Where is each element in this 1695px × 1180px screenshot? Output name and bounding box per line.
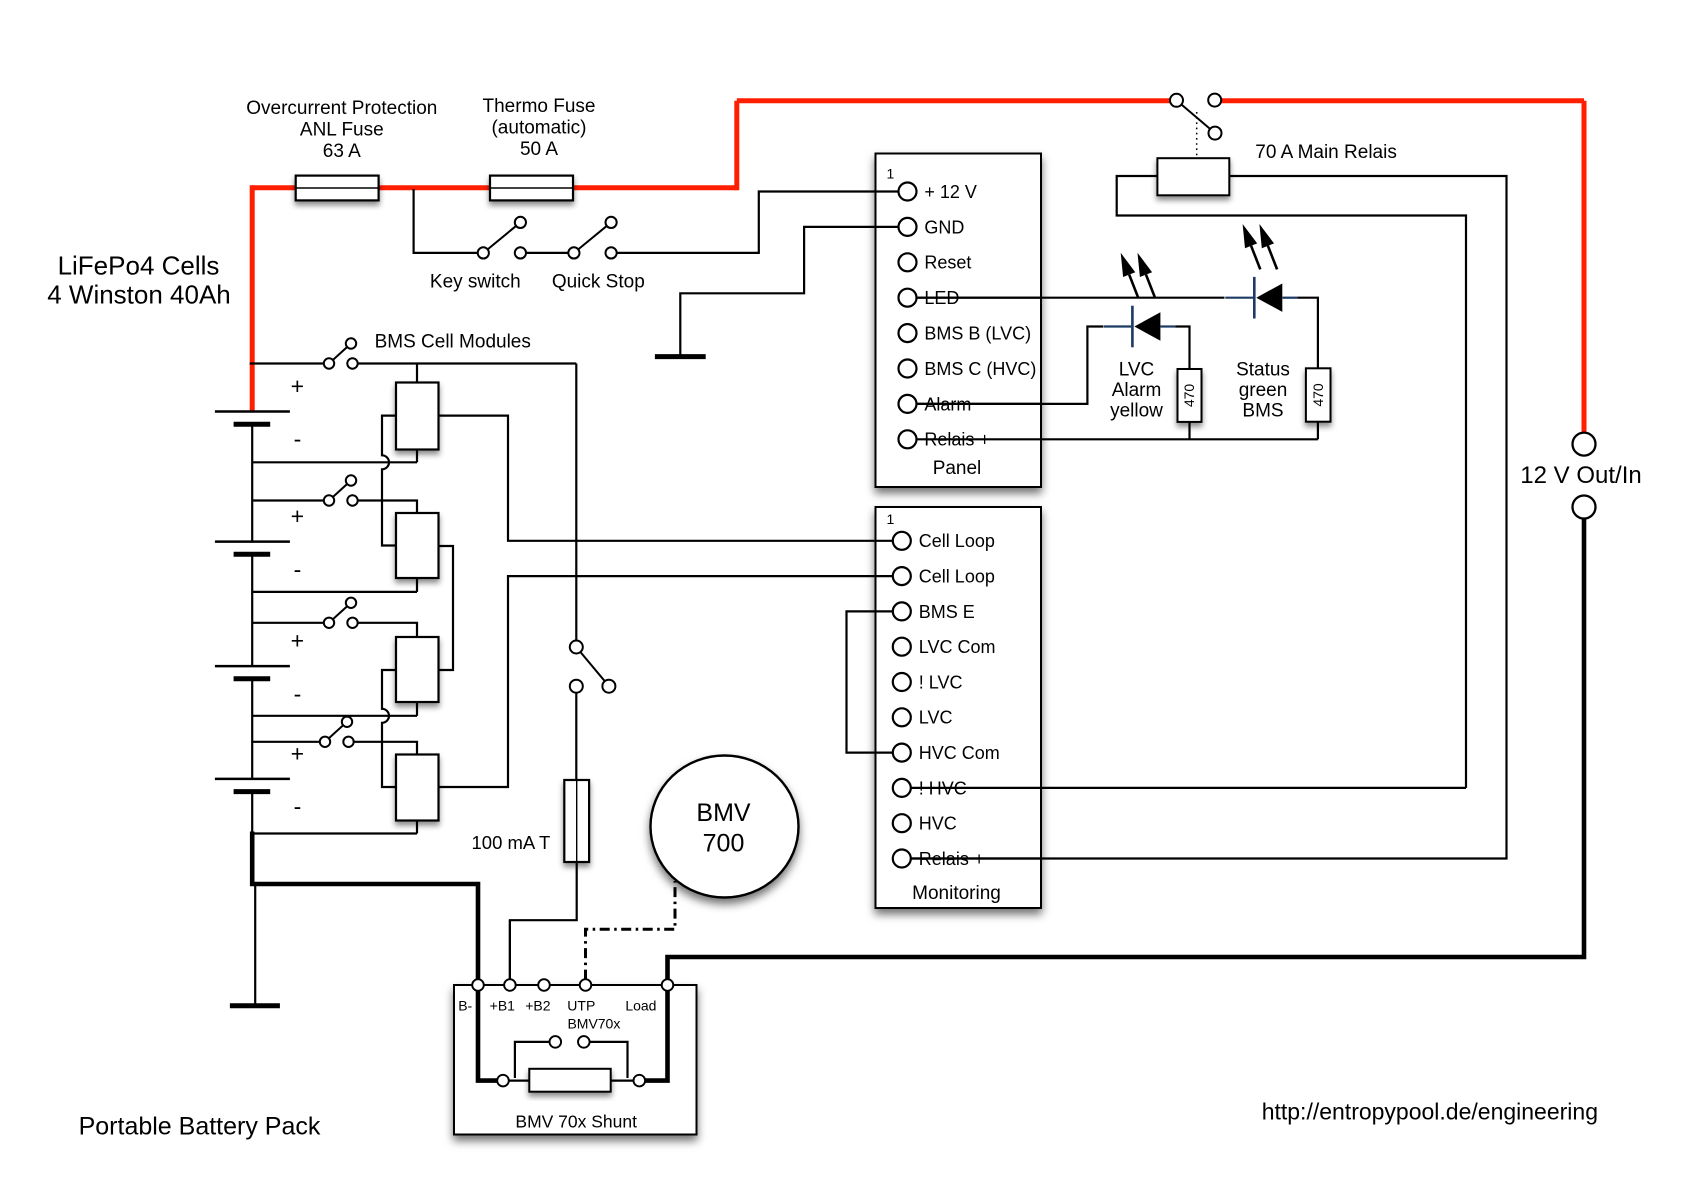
wire cell2 minus [252,591,417,593]
pin Monitoring LVC Com 4 [893,638,911,656]
switch S6 monitor supply [570,641,616,693]
battery cell B3 positive plate [215,665,290,668]
wire UTP dash-dot data link [586,881,676,980]
svg-text:green: green [1239,380,1288,401]
svg-text:63 A: 63 A [323,141,361,162]
svg-text:Monitoring: Monitoring [912,883,1001,904]
wire switch S4 to module M3 top [358,623,417,639]
wire shunt left link [509,1079,530,1081]
pin shunt Load [662,979,674,991]
terminal shunt resistor left [497,1075,509,1087]
wire fuse F3 to +B1 [510,862,577,980]
svg-text:-: - [294,681,302,707]
pin shunt UTP [580,979,592,991]
svg-text:BMV: BMV [696,799,751,827]
svg-text:BMS C (HVC): BMS C (HVC) [924,359,1036,379]
wire ground stub battery minus [254,884,256,1005]
wire module M4 bottom stub [416,819,418,834]
wire !HVC to relay coil [911,787,1466,789]
pin Monitoring Cell Loop 2 [893,567,911,585]
wire relay K1 coil left to !HVC [1117,176,1466,788]
fuse F3 100mA T body [564,780,589,862]
wire quick stop to +12V pin [617,192,899,253]
wire module M1 bottom stub [416,448,418,462]
svg-text:LVC: LVC [919,708,953,728]
pin Monitoring Relais + 10 [893,850,911,868]
wire shunt right link [611,1079,634,1081]
svg-text:BMV 70x Shunt: BMV 70x Shunt [515,1112,637,1132]
switch S1 main relay contact [1170,94,1222,140]
wire cell1 plus tap to switch S2 [250,362,324,364]
relay K1 coil box [1157,158,1229,195]
wire BMS E to HVC Com [847,611,893,752]
LED D2 yellow LVC alarm [1103,253,1175,347]
svg-text:+B2: +B2 [525,998,551,1014]
svg-text:+: + [291,373,304,399]
wire module M1 top stub [416,364,418,385]
wire module M4 right to Cell Loop 2 [439,576,893,787]
pin Panel Reset [899,253,917,271]
wire module M2 bottom stub [416,577,418,592]
terminal 12V out positive [1573,433,1596,456]
battery cell B4 positive plate [215,778,290,781]
BMS cell module M3 [396,637,439,702]
wire LED pin stub over text [917,297,1042,299]
wire bus cell1 minus to cell2 plus [251,424,253,541]
ground symbol battery [230,1003,280,1008]
BMS cell module M2 [396,513,439,578]
wire Relais+ monitoring stub over text [911,857,1041,859]
svg-text:1: 1 [887,511,895,527]
wire cell4 minus [252,832,417,834]
wire cell3 plus tap to switch S4 [252,622,324,624]
wire red main switch to 12V out [1221,98,1584,103]
LED D1 green status [1225,224,1297,319]
battery cell B1 negative plate [234,422,271,427]
IC U1 Panel connector box [876,154,1042,488]
svg-text:LVC: LVC [1119,360,1155,381]
pin Monitoring Cell Loop 1 [893,532,911,550]
svg-text:HVC: HVC [919,814,957,834]
svg-text:Overcurrent Protection: Overcurrent Protection [246,98,437,119]
pin shunt +B1 [504,979,516,991]
pin Monitoring HVC Com 7 [893,744,911,762]
svg-text:-: - [294,794,302,820]
svg-text:BMS B (LVC): BMS B (LVC) [924,324,1031,344]
wire module M1 right to Cell Loop 1 [439,416,893,541]
svg-text:Key switch: Key switch [430,272,521,293]
wire LED pin to green LED [917,297,1225,299]
svg-text:BMS: BMS [1242,401,1283,422]
svg-text:http://entropypool.de/engineer: http://entropypool.de/engineering [1262,1099,1598,1125]
wire shunt sense left [515,1042,550,1078]
svg-text:LiFePo4 Cells: LiFePo4 Cells [58,251,220,281]
BMS cell module M4 [396,755,439,821]
svg-text:+: + [291,740,304,766]
svg-text:100 mA T: 100 mA T [472,832,551,853]
svg-text:70 A Main Relais: 70 A Main Relais [1255,142,1397,163]
terminal shunt resistor right [634,1075,646,1087]
relay K1 linkage dotted line [1196,112,1198,157]
wire cell3 minus [252,715,417,717]
battery cell B3 negative plate [234,676,271,681]
wire red to main switch [737,98,1170,103]
wire battery negative thick drop [252,832,478,980]
svg-text:(automatic): (automatic) [491,118,586,139]
svg-text:Cell Loop: Cell Loop [919,567,995,587]
svg-text:Load: Load [625,998,656,1014]
switch S2 cell module 1 [324,338,358,368]
svg-text:Panel: Panel [933,458,982,479]
battery cell B4 negative plate [234,789,271,794]
svg-text:BMV70x: BMV70x [567,1016,620,1032]
wire red fuse run [252,185,737,190]
svg-text:Status: Status [1236,360,1290,381]
wire 12V negative thick [668,519,1585,980]
wire shunt Load internal thick [645,991,667,1081]
wire module M3 bottom stub [416,701,418,716]
wire red tap to key switch [414,189,478,253]
wire module bus down to switch S6 [575,364,577,641]
battery cell B2 positive plate [215,540,290,543]
wire key switch to quick stop [526,252,568,254]
svg-text:Quick Stop: Quick Stop [552,272,645,293]
svg-text:Portable Battery Pack: Portable Battery Pack [79,1113,321,1141]
fuse F2 thermo 50A body [490,176,573,201]
svg-text:ANL Fuse: ANL Fuse [300,120,384,141]
svg-text:+ 12 V: + 12 V [924,182,977,202]
pin Panel LED [899,289,917,307]
wire red rise to switch S1 [734,101,739,191]
wire switch S6 to fuse F3 [575,693,577,782]
pin Monitoring HVC 9 [893,814,911,832]
svg-text:-: - [294,556,302,582]
svg-text:700: 700 [703,829,745,857]
wire module M1 left to M2 left with hop [382,416,396,546]
wire cell1 minus [252,461,417,463]
svg-text:BMS Cell Modules: BMS Cell Modules [375,332,531,353]
switch S4 cell module 3 [324,598,358,628]
svg-text:UTP: UTP [567,998,595,1014]
wire shunt sense right [590,1042,628,1078]
svg-text:B-: B- [458,998,472,1014]
IC U2 Monitoring connector box [876,507,1042,908]
svg-text:HVC Com: HVC Com [919,743,1000,763]
svg-text:-: - [294,426,302,452]
terminal shunt sense right [578,1036,590,1048]
pin Monitoring ! LVC 5 [893,673,911,691]
wire bus cell2 minus to cell3 plus [251,554,253,666]
ground symbol GND [655,354,706,359]
fuse F1 ANL 63A body [296,176,379,201]
pin Monitoring LVC 6 [893,708,911,726]
shunt module box BMV 70x Shunt [454,985,697,1135]
pin Monitoring ! HVC 8 [893,779,911,797]
switch S5 cell module 4 [320,717,354,747]
fuse F1 element line [296,187,379,189]
svg-text:50 A: 50 A [520,139,558,160]
BMV 700 meter circle [651,756,799,898]
switch S7 key switch [478,217,526,259]
svg-text:Reset: Reset [924,253,971,273]
wire switch S5 to module M4 top [354,742,417,756]
svg-text:Thermo Fuse: Thermo Fuse [483,96,596,117]
svg-text:+B1: +B1 [490,998,516,1014]
wire module M3 left to M4 left with hop [382,670,396,787]
svg-text:! LVC: ! LVC [919,672,963,692]
wire Relais+ panel to resistors [917,438,1318,440]
svg-text:470: 470 [1181,384,1197,408]
pin Panel Alarm [899,395,917,413]
pin shunt +B2 [538,979,550,991]
wire Alarm pin stub over text [917,403,1042,405]
wire cell4 plus tap to switch S5 [252,741,320,743]
resistor R2 body [1178,369,1202,422]
wire Alarm pin to yellow LED [917,327,1104,404]
switch S3 cell module 2 [324,475,358,505]
wire switch S3 to module M2 top [358,501,417,515]
wire red down to 12V out terminal [1582,101,1587,433]
shunt resistor R3 body [529,1069,610,1092]
svg-text:+: + [291,503,304,529]
pin Panel BMS B (LVC) [899,324,917,342]
switch S8 quick stop [568,217,616,259]
pin shunt B- [472,979,484,991]
svg-text:yellow: yellow [1110,401,1163,422]
battery cell B1 positive plate [215,410,290,413]
wire cell2 plus tap to switch S3 [252,499,324,501]
battery cell B2 negative plate [234,552,271,557]
wire shunt B- internal thick [478,991,497,1081]
wire yellow LED to resistor R2 [1175,327,1189,371]
wire red battery positive to fuses [250,185,255,411]
pin Panel + 12 V [899,183,917,201]
pin Panel Relais + [899,430,917,448]
fuse F2 element line [490,187,573,189]
svg-text:+: + [291,628,304,654]
BMS cell module M1 [396,383,439,450]
wire green LED to resistor R1 [1297,298,1318,370]
pin Panel GND [899,218,917,236]
svg-text:Cell Loop: Cell Loop [919,531,995,551]
svg-text:Alarm: Alarm [1112,380,1162,401]
svg-text:470: 470 [1310,383,1326,407]
wire relay K1 coil right to Relais+ [911,176,1507,859]
svg-text:1: 1 [887,165,895,181]
fuse F3 element line [576,780,578,862]
resistor R1 body [1306,368,1331,421]
wire bus cell4 bottom [251,792,253,834]
svg-text:12 V Out/In: 12 V Out/In [1520,462,1641,489]
wire resistor R1 to Relais+ net [1317,422,1319,440]
terminal 12V out negative [1573,496,1596,519]
wire +B1 riser [509,920,511,979]
svg-text:LVC Com: LVC Com [919,637,996,657]
wire switch S2 to module bus [358,362,577,364]
wire module M2 right to M3 right [439,546,454,670]
svg-text:GND: GND [924,217,964,237]
wire GND pin to ground [680,227,898,355]
pin Panel BMS C (HVC) [899,360,917,378]
svg-text:BMS E: BMS E [919,602,975,622]
pin Monitoring BMS E 3 [893,602,911,620]
terminal shunt sense left [550,1036,562,1048]
svg-text:4 Winston 40Ah: 4 Winston 40Ah [47,280,231,310]
wire resistor R2 to Relais+ net [1188,422,1190,439]
wire bus cell3 minus to cell4 plus [251,679,253,779]
